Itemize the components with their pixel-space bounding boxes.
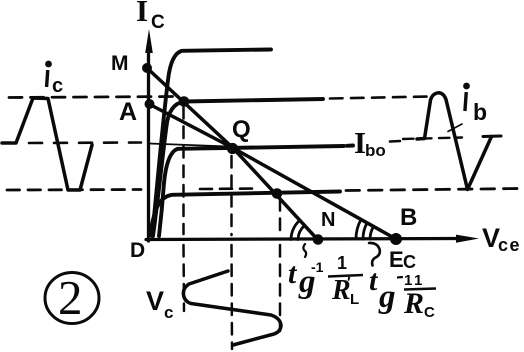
svg-text:D: D xyxy=(130,239,145,262)
vertical dashed line through knee dot x=183 xyxy=(182,107,185,311)
angle arcs at N xyxy=(298,226,305,240)
dot B xyxy=(390,233,402,245)
characteristic curve 1 (top) xyxy=(152,50,271,237)
dashed bottom level line mid segment xyxy=(200,187,258,190)
angle arcs at B xyxy=(370,227,374,240)
dot M xyxy=(142,63,152,73)
svg-text:1: 1 xyxy=(337,253,347,273)
svg-text:R: R xyxy=(403,287,424,320)
thin Ibo level line from axis to Q xyxy=(149,144,229,147)
dashed ib center line right xyxy=(403,138,462,140)
svg-text:E: E xyxy=(389,247,404,272)
ib label pointer xyxy=(448,124,462,132)
dot on curve4 xyxy=(272,188,283,199)
dashed bottom level line left xyxy=(7,188,141,191)
superscript -1 xyxy=(397,276,403,279)
dash after Ibo label xyxy=(390,140,400,143)
svg-text:M: M xyxy=(111,52,129,75)
svg-text:C: C xyxy=(424,304,435,321)
knee dot on curve2 xyxy=(179,96,190,107)
svg-text:Q: Q xyxy=(232,116,251,143)
svg-text:B: B xyxy=(400,204,417,231)
load line A-Q-B (DC) xyxy=(149,104,396,239)
x-axis Vce xyxy=(146,239,460,240)
svg-text:g: g xyxy=(378,279,396,315)
svg-text:C: C xyxy=(403,252,416,272)
y-axis arrowhead xyxy=(145,29,153,53)
iC waveform (left) xyxy=(2,98,92,190)
x-axis arrowhead xyxy=(456,235,479,243)
vertical dashed line through x=280 xyxy=(279,199,282,331)
ib waveform (right) xyxy=(417,93,492,190)
ib label stem + b xyxy=(463,92,468,111)
svg-text:C: C xyxy=(151,12,165,33)
dot Q xyxy=(227,143,238,154)
svg-text:L: L xyxy=(350,291,359,308)
dot N xyxy=(313,234,324,245)
dashed continuation of curve2 toward ib peak xyxy=(330,97,429,99)
svg-text:-1: -1 xyxy=(311,259,324,275)
dot A xyxy=(145,99,155,109)
y-axis IC xyxy=(147,48,150,241)
iC label stem + c xyxy=(45,70,50,87)
svg-text:c: c xyxy=(52,75,63,97)
characteristic curve 3 (Ibo) xyxy=(159,146,353,237)
svg-text:′: ′ xyxy=(347,274,351,291)
characteristic curve 4 (bottom) xyxy=(151,192,341,235)
dashed level line top-left (clip level of iC peak) xyxy=(9,97,175,98)
ib label i-dot xyxy=(463,83,470,90)
characteristic curve 2 xyxy=(153,99,323,236)
dashed bottom level line right going to edge xyxy=(346,189,522,191)
svg-text:b: b xyxy=(473,99,487,125)
squiggle leader below N xyxy=(303,244,306,257)
svg-text:V: V xyxy=(146,286,164,316)
svg-text:ce: ce xyxy=(498,235,521,255)
ib waveform end tick xyxy=(483,135,501,139)
dashed center level line left of axis xyxy=(29,141,141,144)
svg-text:I: I xyxy=(136,0,148,28)
svg-text:c: c xyxy=(164,303,173,322)
svg-text:bo: bo xyxy=(365,141,386,160)
squiggle leader below B arcs to EC xyxy=(369,243,380,266)
svg-text:A: A xyxy=(119,98,137,126)
svg-text:N: N xyxy=(321,209,335,231)
Vc waveform (below axis) xyxy=(183,271,281,345)
load line M-Q-N (AC) xyxy=(147,68,318,240)
vertical dashed line through Q x=231 xyxy=(230,156,233,349)
figure number circled 2 xyxy=(45,273,99,324)
iC label i-dot xyxy=(45,61,52,68)
svg-text:2: 2 xyxy=(58,270,83,325)
